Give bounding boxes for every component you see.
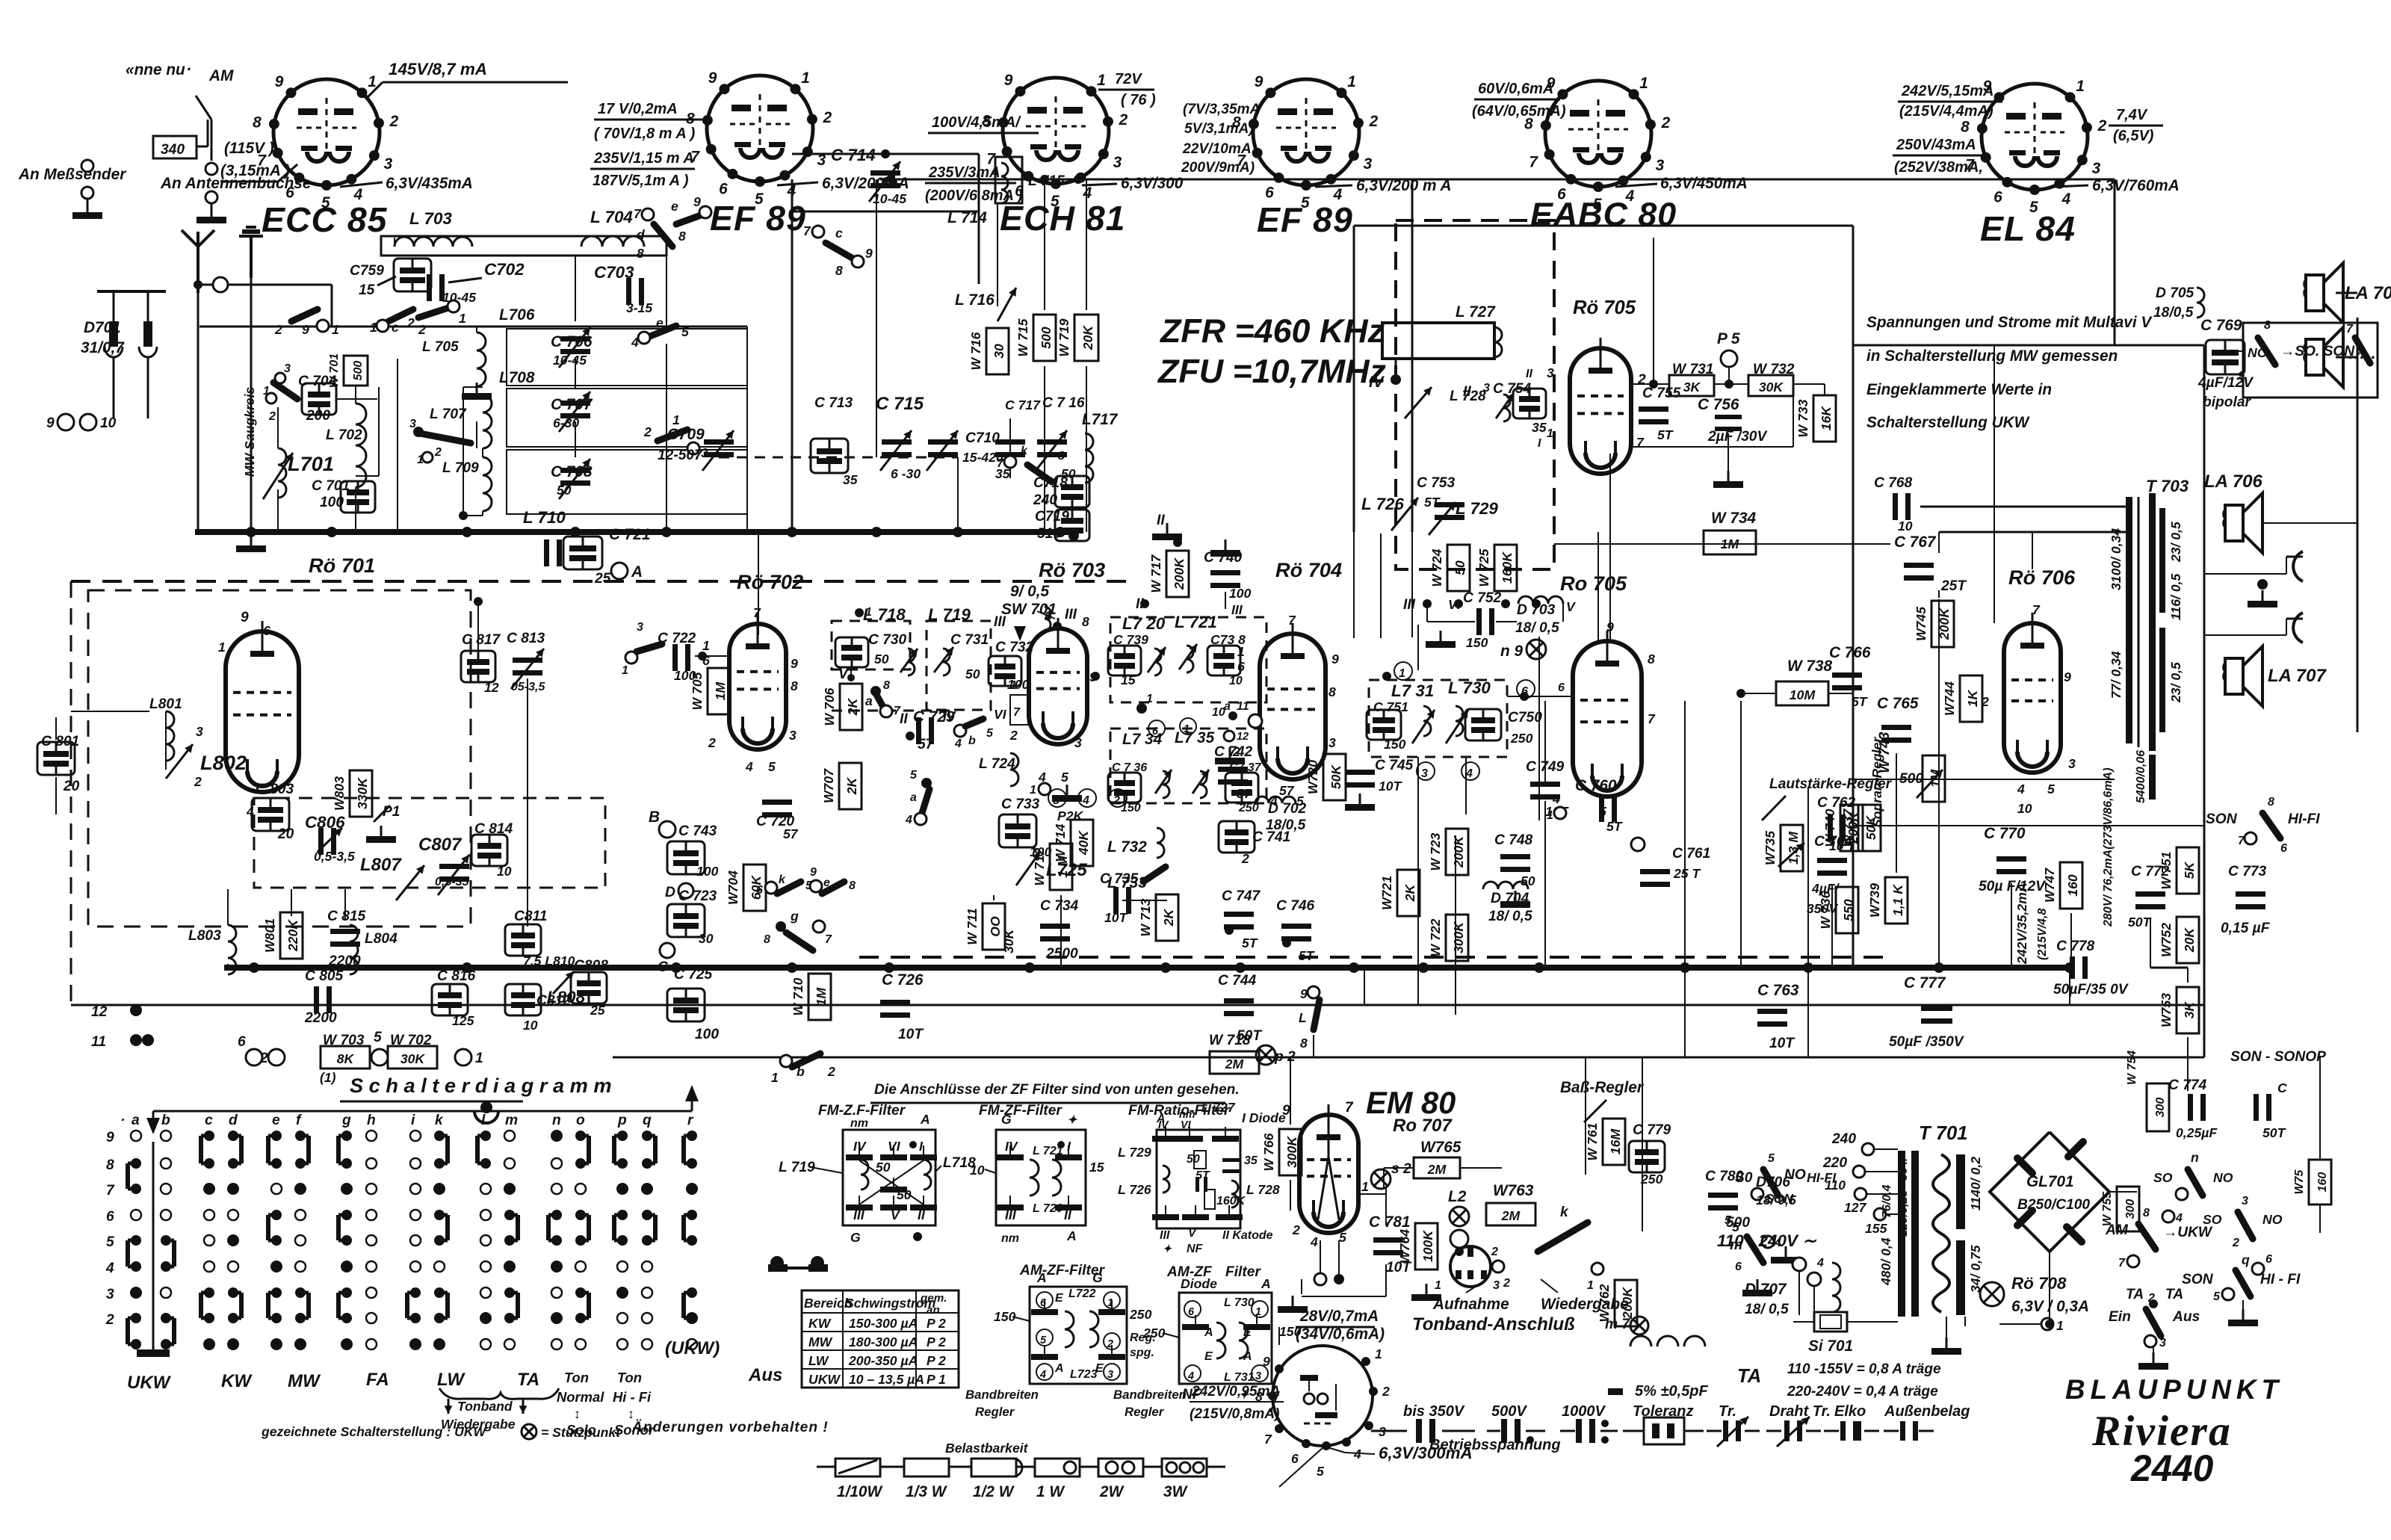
wire y1415 (613, 1057, 2204, 1059)
svg-text:9: 9 (810, 866, 817, 879)
svg-text:200K: 200K (1620, 1287, 1635, 1320)
svg-text:C 731: C 731 (950, 632, 989, 648)
svg-text:2K: 2K (844, 776, 859, 795)
band label TA (517, 1370, 539, 1390)
svg-text:V: V (1188, 1227, 1197, 1240)
svg-text:8: 8 (106, 1157, 114, 1173)
C805 cap (304, 968, 344, 1026)
L719 dashed box (927, 605, 1006, 710)
svg-text:340: 340 (161, 142, 185, 158)
svg-text:100V/4,5mA/: 100V/4,5mA/ (932, 114, 1021, 131)
svg-text:18/0,5: 18/0,5 (2153, 305, 2194, 321)
svg-text:4: 4 (1187, 1370, 1194, 1382)
FM-ZF-Filter 1 title (818, 1103, 906, 1119)
switch n SO NO (2153, 1150, 2233, 1200)
Roe708 lamp (1980, 1274, 2089, 1315)
svg-text:3: 3 (1113, 154, 1122, 171)
svg-text:g: g (341, 1113, 351, 1128)
FM-ZF-Filter 1 box (843, 1112, 937, 1245)
legend DrahtTr (1766, 1403, 1831, 1447)
svg-text:2: 2 (389, 113, 399, 130)
svg-text:Schalterstellung UKW: Schalterstellung UKW (1866, 414, 2031, 431)
svg-text:III: III (1005, 1207, 1017, 1222)
EABC80 heater note (1615, 175, 1748, 192)
switch SO NO m5 (1725, 1152, 1837, 1227)
switch 7 d 8 (634, 206, 672, 261)
svg-text:8: 8 (1648, 652, 1655, 667)
svg-text:W 754: W 754 (2126, 1051, 2138, 1085)
svg-text:2K: 2K (845, 697, 860, 716)
svg-text:EABC 80: EABC 80 (1530, 196, 1677, 233)
antenna symbol 2 (239, 227, 263, 278)
svg-text:h: h (367, 1113, 376, 1128)
tonband label (1412, 1314, 1575, 1335)
terminal D (665, 883, 693, 900)
svg-text:2: 2 (274, 322, 282, 337)
svg-text:✦: ✦ (1067, 1114, 1078, 1127)
W739 resistor (1867, 877, 1908, 924)
svg-text:12: 12 (484, 680, 499, 695)
svg-text:10T: 10T (1104, 910, 1128, 925)
svg-text:2: 2 (1491, 1246, 1498, 1258)
tube Roe703 (1009, 607, 1100, 802)
C745 cap (1345, 758, 1414, 811)
svg-text:180-300 µA: 180-300 µA (849, 1335, 918, 1349)
L702 coil (326, 385, 366, 532)
svg-text:L7 34: L7 34 (1122, 731, 1163, 748)
svg-text:L723: L723 (1070, 1368, 1098, 1381)
svg-text:9/ 0,5: 9/ 0,5 (1010, 583, 1049, 600)
W744 resistor (1942, 675, 1982, 722)
tube socket EF89 (686, 69, 832, 208)
gnd roe705 (1631, 396, 1793, 488)
switch 7 c 9 (803, 223, 873, 278)
svg-text:50: 50 (874, 652, 889, 667)
tube Roe705b (1552, 619, 1656, 819)
W763 resistor (1486, 1182, 1535, 1225)
left dashed border (70, 581, 72, 1005)
C748 cap (1494, 832, 1535, 908)
svg-text:6: 6 (1040, 1297, 1047, 1309)
svg-text:LW: LW (808, 1353, 829, 1368)
svg-text:50µ F/12V: 50µ F/12V (1979, 879, 2047, 894)
svg-text:57: 57 (918, 737, 935, 752)
C717 cap (995, 398, 1041, 481)
svg-text:110 -155V = 0,8 A träge: 110 -155V = 0,8 A träge (1787, 1361, 1941, 1377)
svg-text:200K: 200K (1172, 557, 1187, 590)
svg-text:2: 2 (1113, 794, 1120, 807)
svg-text:Regler: Regler (975, 1405, 1015, 1419)
svg-text:4: 4 (105, 1261, 114, 1276)
svg-text:C 744: C 744 (1218, 973, 1257, 989)
svg-text:200-350 µA: 200-350 µA (848, 1353, 918, 1368)
lamp L2 (1448, 1188, 1469, 1248)
L732 labels (1107, 828, 1164, 858)
band label FA (366, 1370, 389, 1390)
W719 resistor (1057, 315, 1098, 361)
C814 boxed cap (471, 821, 513, 879)
tube Roe704 label (1275, 558, 1342, 581)
svg-text:W 718: W 718 (1209, 1033, 1251, 1048)
svg-text:200V/9mA): 200V/9mA) (1181, 160, 1255, 176)
svg-text:Rö 703: Rö 703 (1039, 558, 1105, 581)
svg-text:C 805: C 805 (305, 968, 344, 984)
svg-text:a: a (1224, 700, 1231, 713)
svg-text:L7 31: L7 31 (1391, 681, 1434, 700)
C812 boxed cap (505, 984, 571, 1033)
svg-text:1000V: 1000V (1562, 1403, 1606, 1420)
svg-text:P2K: P2K (1057, 808, 1084, 823)
circled 2 (1109, 789, 1127, 807)
svg-text:L 702: L 702 (326, 427, 362, 443)
svg-text:10T: 10T (898, 1027, 924, 1042)
svg-text:W 722: W 722 (1428, 918, 1443, 956)
ground on bus (236, 535, 266, 552)
EABC80 notes (1472, 81, 1566, 120)
svg-text:120/0,25: 120/0,25 (1897, 1190, 1910, 1237)
svg-text:2: 2 (1369, 113, 1379, 130)
C767 cap (1894, 534, 1967, 594)
L807 trimmer (360, 855, 424, 900)
svg-text:1: 1 (2056, 1318, 2064, 1333)
svg-text:4: 4 (1082, 794, 1089, 807)
svg-text:( 76 ): ( 76 ) (1121, 92, 1156, 108)
measurement note line2 (1866, 347, 2118, 365)
betriebsspannung (1429, 1437, 1561, 1453)
svg-text:3: 3 (1364, 155, 1373, 173)
svg-text:200: 200 (306, 408, 330, 424)
C743 boxed cap (667, 823, 719, 879)
svg-text:240: 240 (1033, 492, 1057, 508)
D707 label (1745, 1281, 1789, 1317)
svg-text:20: 20 (277, 826, 294, 842)
C781 cap (1369, 1213, 1412, 1275)
W753 resistor (2159, 987, 2199, 1033)
C772 cap (2128, 864, 2170, 930)
svg-text:W 755: W 755 (2101, 1191, 2114, 1226)
svg-text:Hi - Fi: Hi - Fi (613, 1389, 652, 1405)
C718 boxed cap (1033, 475, 1089, 508)
svg-text:Ein: Ein (2109, 1309, 2131, 1325)
L725 trimmer (1016, 852, 1087, 885)
aufnahme (1432, 1279, 1509, 1313)
svg-text:9: 9 (275, 73, 284, 90)
node II mid (1136, 596, 1149, 612)
svg-text:330K: 330K (355, 777, 370, 809)
svg-text:nm: nm (1001, 1232, 1019, 1245)
C738 boxed cap (1207, 632, 1246, 687)
svg-text:SON: SON (2206, 811, 2238, 827)
svg-text:4: 4 (631, 335, 639, 350)
svg-text:1: 1 (2076, 78, 2085, 95)
svg-text:30: 30 (992, 344, 1006, 359)
svg-text:125: 125 (452, 1013, 474, 1028)
svg-text:7: 7 (1288, 613, 1296, 628)
svg-text:C 734: C 734 (1040, 898, 1079, 914)
band label LW (437, 1370, 465, 1390)
C764 cap (1807, 834, 1853, 916)
W758 resistor (2293, 1160, 2331, 1205)
svg-text:4: 4 (1310, 1234, 1318, 1249)
svg-text:W 706: W 706 (822, 687, 837, 726)
svg-text:1 M: 1 M (1055, 856, 1070, 878)
svg-text:8: 8 (1961, 118, 1970, 135)
svg-text:L 727: L 727 (1201, 1100, 1236, 1115)
W723 resistor (1428, 829, 1468, 875)
svg-text:W 725: W 725 (1476, 548, 1491, 587)
tube socket ECH81 (982, 72, 1128, 210)
svg-text:6: 6 (2280, 842, 2287, 855)
svg-text:35: 35 (1244, 1154, 1258, 1167)
svg-text:2: 2 (194, 774, 202, 789)
svg-text:Ton: Ton (564, 1370, 589, 1385)
logo 2440 (2130, 1447, 2214, 1489)
tube socket EL84 (1961, 78, 2106, 216)
svg-text:C 763: C 763 (1757, 982, 1799, 999)
C722 cap (622, 621, 696, 683)
An Antennenbuchse label (160, 175, 311, 192)
svg-text:UKW: UKW (127, 1373, 172, 1393)
svg-text:C 760: C 760 (1575, 777, 1617, 794)
P5 terminal (1717, 330, 1740, 389)
dashed filter box tr (1396, 220, 1554, 569)
misc vertical wires (758, 345, 2070, 1231)
C777 cap (1889, 974, 1965, 1050)
svg-text:a: a (910, 791, 917, 804)
switch 2-1 a (406, 300, 466, 330)
svg-text:II: II (1064, 1207, 1072, 1222)
L727 coil path (1382, 303, 1502, 380)
svg-text:1: 1 (771, 1070, 779, 1085)
svg-text:1: 1 (672, 412, 680, 427)
svg-text:nm: nm (850, 1117, 868, 1130)
svg-text:10: 10 (1898, 519, 1913, 534)
svg-text:23/ 0,5: 23/ 0,5 (2168, 662, 2183, 703)
svg-text:A: A (1054, 1362, 1064, 1375)
sopran regler (1869, 737, 1884, 828)
svg-text:9: 9 (708, 69, 717, 87)
svg-text:gem.: gem. (920, 1292, 947, 1305)
svg-text:III: III (1065, 607, 1077, 622)
svg-text:L 729: L 729 (1118, 1145, 1151, 1160)
svg-text:1: 1 (1347, 73, 1356, 90)
band label MW (288, 1371, 321, 1391)
svg-text:3K: 3K (2182, 1001, 2197, 1018)
svg-text:0,5-35: 0,5-35 (435, 876, 469, 888)
svg-text:Ro 705: Ro 705 (1560, 572, 1627, 595)
svg-text:3: 3 (2242, 1195, 2248, 1207)
AM filter2 bottom labels (1182, 1387, 1250, 1403)
C734 cap (1040, 898, 1079, 962)
svg-text:q: q (643, 1113, 652, 1128)
svg-text:l: l (481, 1113, 486, 1128)
svg-text:(34V/0,6mA): (34V/0,6mA) (1296, 1326, 1385, 1343)
switch 4 e 5 (631, 315, 689, 350)
svg-text:350V: 350V (1807, 901, 1838, 916)
svg-text:C 723: C 723 (678, 888, 717, 904)
svg-text:p: p (617, 1113, 627, 1128)
svg-text:155: 155 (1865, 1221, 1887, 1236)
TA label (1737, 1366, 1761, 1387)
tube label EF89b (1257, 200, 1353, 239)
svg-text:FA: FA (366, 1370, 389, 1390)
antenna symbol (182, 230, 214, 293)
Si701 fuse (1793, 1312, 1898, 1332)
svg-text:BLAUPUNKT: BLAUPUNKT (2065, 1374, 2283, 1405)
svg-text:L 721: L 721 (1175, 613, 1217, 631)
W710 resistor (791, 974, 831, 1020)
L715 boxed coil (995, 157, 1065, 203)
W751 resistor (2159, 847, 2199, 894)
svg-text:6 -30: 6 -30 (891, 466, 921, 481)
svg-text:P 5: P 5 (1717, 330, 1740, 347)
svg-text:18/ 0,5: 18/ 0,5 (1745, 1302, 1789, 1317)
svg-text:W 716: W 716 (968, 332, 983, 370)
switch matrix column letters (120, 1113, 694, 1128)
svg-text:Belastbarkeit: Belastbarkeit (945, 1441, 1029, 1456)
svg-text:SO: SO (2153, 1170, 2173, 1185)
C806 cap (305, 813, 355, 864)
svg-text:9: 9 (106, 1130, 114, 1145)
svg-text:Die Anschlüsse der ZF Filter s: Die Anschlüsse der ZF Filter sind von un… (874, 1082, 1240, 1098)
tube Roe706 label (2008, 566, 2076, 589)
svg-text:Aufnahme: Aufnahme (1432, 1296, 1509, 1313)
svg-text:2: 2 (708, 735, 716, 750)
EM80 text (1366, 1085, 1456, 1120)
svg-text:220: 220 (1822, 1155, 1847, 1171)
ECH81 notes (925, 114, 1039, 204)
L724 coil (979, 753, 1018, 786)
280V rotated (2102, 767, 2115, 927)
svg-text:4: 4 (954, 737, 962, 750)
svg-text:5T: 5T (1606, 819, 1623, 834)
antenna lead wires (194, 277, 332, 292)
svg-text:2: 2 (1009, 728, 1018, 743)
watt 1/10W (817, 1459, 899, 1500)
svg-text:Rö 708: Rö 708 (2011, 1274, 2067, 1293)
svg-text:250: 250 (1129, 1307, 1152, 1322)
svg-text:30K: 30K (1001, 928, 1016, 953)
tube label EABC80 (1530, 196, 1677, 233)
C773 cap (2221, 864, 2271, 936)
C756 cap (1698, 396, 1768, 445)
svg-text:3: 3 (1074, 735, 1082, 750)
svg-text:ZFU =10,7MHz: ZFU =10,7MHz (1157, 353, 1387, 390)
svg-text:r: r (687, 1113, 694, 1128)
svg-text:C 726: C 726 (882, 971, 924, 989)
svg-text:4: 4 (1816, 1257, 1824, 1270)
AM filter1 side labels (994, 1307, 1156, 1359)
wire ant2 down (250, 278, 253, 532)
svg-text:II: II (1526, 368, 1532, 380)
L734 dashed box (1110, 729, 1266, 803)
svg-text:10: 10 (523, 1018, 538, 1033)
svg-text:D: D (665, 885, 675, 900)
dashed y1281 (859, 956, 1883, 959)
W724 resistor (1429, 545, 1470, 591)
C750 boxed cap (1465, 709, 1542, 746)
T701 secondary (1956, 1154, 1983, 1315)
D702 label (1255, 783, 1307, 833)
svg-text:40K: 40K (1076, 830, 1091, 856)
svg-text:L717: L717 (1082, 411, 1119, 428)
terminal 11 (91, 1034, 154, 1050)
svg-text:35: 35 (1532, 420, 1547, 435)
T701 winding labels (1878, 1156, 1910, 1286)
legend Tr (1707, 1403, 1760, 1447)
svg-text:5K: 5K (2182, 861, 2197, 879)
svg-text:7: 7 (106, 1183, 115, 1199)
svg-text:100K: 100K (1420, 1230, 1435, 1262)
svg-text:LA 706: LA 706 (2204, 471, 2262, 492)
W737 resistor (1840, 805, 1881, 851)
svg-text:18/ 0,5: 18/ 0,5 (1488, 909, 1532, 924)
FM-Ratio-Filter title (1128, 1103, 1231, 1119)
svg-text:A: A (1066, 1228, 1077, 1243)
svg-text:10M: 10M (1790, 687, 1816, 702)
L731 C751 (1367, 699, 1468, 752)
svg-text:1 W: 1 W (1036, 1483, 1065, 1500)
C704 boxed cap (298, 374, 377, 424)
measurement note line1 (1866, 314, 2153, 331)
svg-text:L 721: L 721 (1033, 1145, 1063, 1157)
svg-text:10: 10 (1229, 675, 1243, 687)
svg-text:B250/C100: B250/C100 (2017, 1197, 2090, 1213)
L718 trimmer (900, 649, 918, 675)
svg-text:5: 5 (1040, 1335, 1047, 1346)
svg-text:7: 7 (803, 223, 811, 238)
svg-text:7: 7 (825, 933, 832, 946)
svg-text:6,3V/450mA: 6,3V/450mA (1660, 175, 1748, 192)
svg-text:1M: 1M (814, 987, 829, 1006)
svg-text:7: 7 (1648, 711, 1656, 726)
switch a 87 (865, 679, 901, 717)
EM80 socket label line (1279, 1447, 1324, 1487)
L704 coil bumps (581, 236, 644, 247)
C779 boxed cap (1629, 1122, 1671, 1187)
label Ton Normal Solo (557, 1370, 604, 1438)
svg-text:V: V (1566, 599, 1576, 614)
svg-text:TA: TA (517, 1370, 539, 1390)
legend toleranz (1608, 1383, 1708, 1444)
W766 resistor (1261, 1057, 1302, 1210)
watt 1W (1016, 1459, 1098, 1500)
Bereich table (802, 1290, 959, 1388)
band label KW (221, 1371, 253, 1391)
svg-text:A: A (1243, 1350, 1252, 1363)
svg-text:S c h a l t e r d i a g r a m: S c h a l t e r d i a g r a m m (350, 1074, 612, 1097)
svg-text:50: 50 (897, 1187, 912, 1202)
svg-text:57: 57 (1237, 786, 1252, 801)
svg-text:8: 8 (791, 678, 798, 693)
svg-text:220-240V = 0,4 A träge: 220-240V = 0,4 A träge (1787, 1384, 1938, 1400)
svg-text:W 761: W 761 (1585, 1123, 1600, 1161)
svg-text:1: 1 (459, 311, 466, 326)
svg-text:34/ 0,75: 34/ 0,75 (1968, 1245, 1983, 1293)
svg-text:240: 240 (1831, 1131, 1856, 1147)
bus dots y1295 (249, 962, 2075, 973)
svg-text:3: 3 (384, 155, 393, 173)
svg-text:0,15 µF: 0,15 µF (2221, 921, 2271, 936)
svg-text:1: 1 (417, 454, 424, 466)
svg-text:(UKW): (UKW) (665, 1338, 720, 1358)
svg-text:W753: W753 (2159, 993, 2174, 1027)
svg-text:22V/10mA: 22V/10mA (1182, 141, 1252, 157)
svg-text:L7 35: L7 35 (1175, 729, 1215, 746)
svg-text:9: 9 (865, 246, 873, 261)
svg-text:C 742: C 742 (1214, 744, 1253, 760)
terminal C (658, 943, 675, 975)
